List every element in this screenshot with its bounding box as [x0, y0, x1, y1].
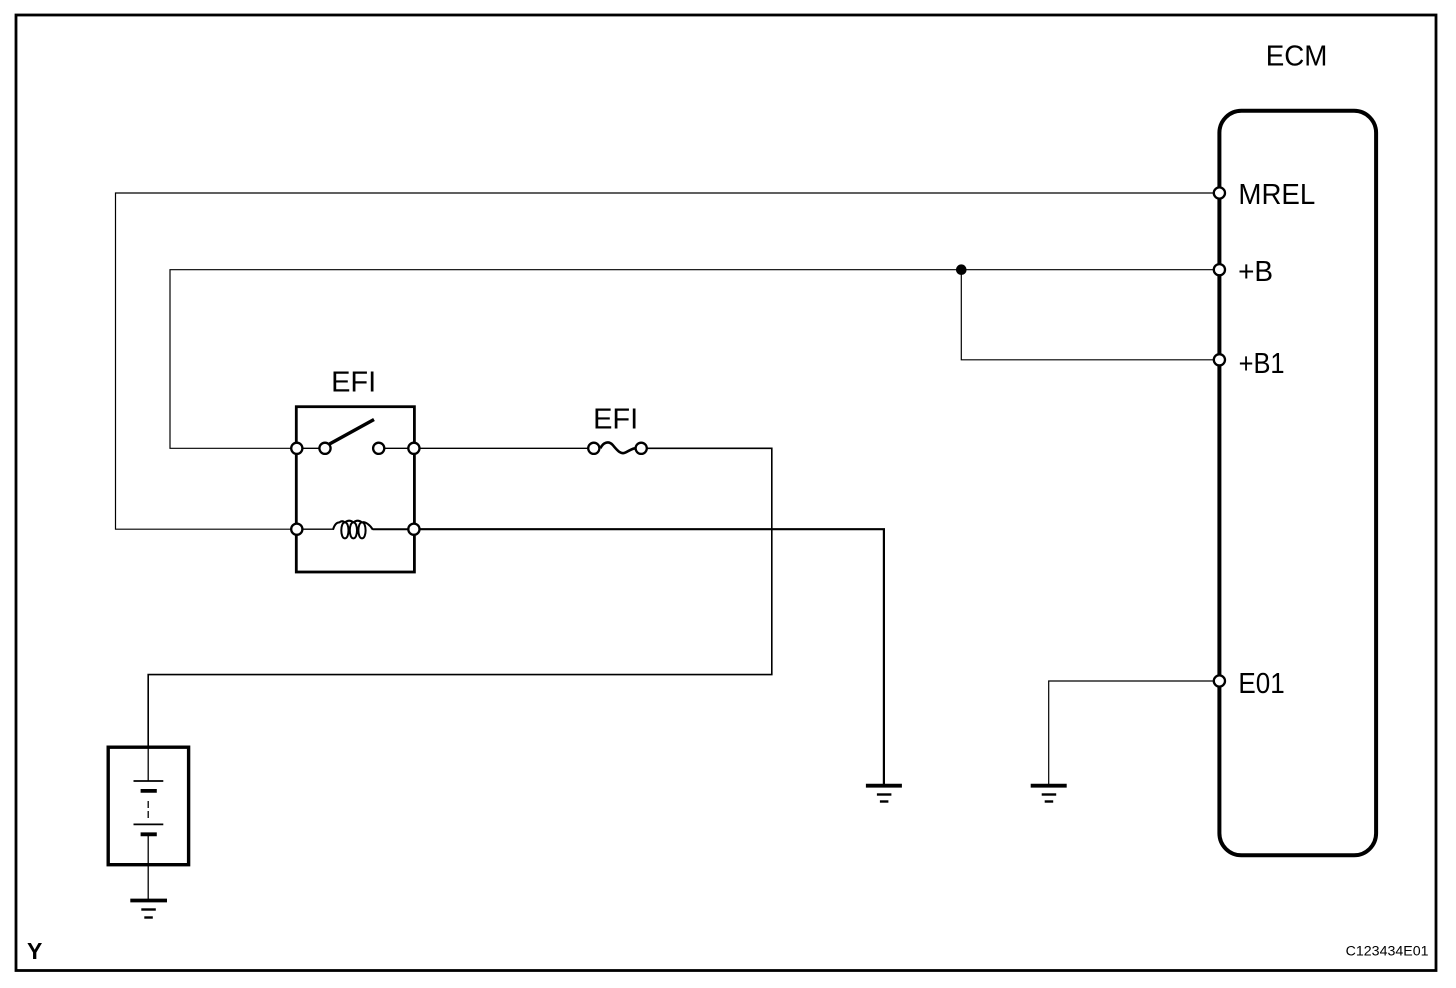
svg-text:C123434E01: C123434E01 — [1346, 944, 1429, 960]
wire +B — [170, 270, 1213, 449]
junction node on +B wire — [956, 264, 967, 275]
wire fuse to battery — [148, 448, 772, 747]
fuse EFI F1 — [588, 442, 647, 453]
wire relay coil to ground — [414, 529, 884, 784]
wire MREL — [116, 193, 1214, 529]
relay box terminal circles — [291, 443, 419, 535]
pin +B — [1214, 256, 1273, 288]
svg-text:EFI: EFI — [331, 367, 376, 399]
svg-text:+B1: +B1 — [1239, 348, 1285, 380]
svg-text:MREL: MREL — [1238, 179, 1315, 211]
wire relay switch to fuse — [414, 447, 587, 449]
svg-text:E01: E01 — [1238, 668, 1284, 700]
pin E01 — [1214, 668, 1285, 700]
ground for relay coil wire — [866, 786, 902, 802]
svg-text:Y: Y — [27, 938, 42, 964]
ground under battery — [130, 901, 167, 918]
relay EFI box — [296, 407, 414, 572]
ground for E01 wire — [1031, 786, 1067, 802]
relay switch contact wires — [302, 447, 408, 449]
pin +B1 — [1214, 348, 1285, 380]
svg-text:ECM: ECM — [1266, 41, 1328, 73]
svg-text:EFI: EFI — [593, 403, 638, 435]
battery BT1 box — [108, 747, 188, 865]
wire E01 to ground — [1049, 681, 1213, 784]
pin MREL — [1214, 179, 1316, 211]
svg-text:+B: +B — [1238, 256, 1273, 288]
relay switch pin circles — [319, 443, 384, 454]
ECM connector U1 — [1219, 111, 1376, 856]
battery internal wires and cells — [134, 747, 164, 899]
wire +B1 — [961, 270, 1213, 360]
relay coil L1 — [303, 521, 408, 539]
relay switch blade — [330, 420, 375, 445]
